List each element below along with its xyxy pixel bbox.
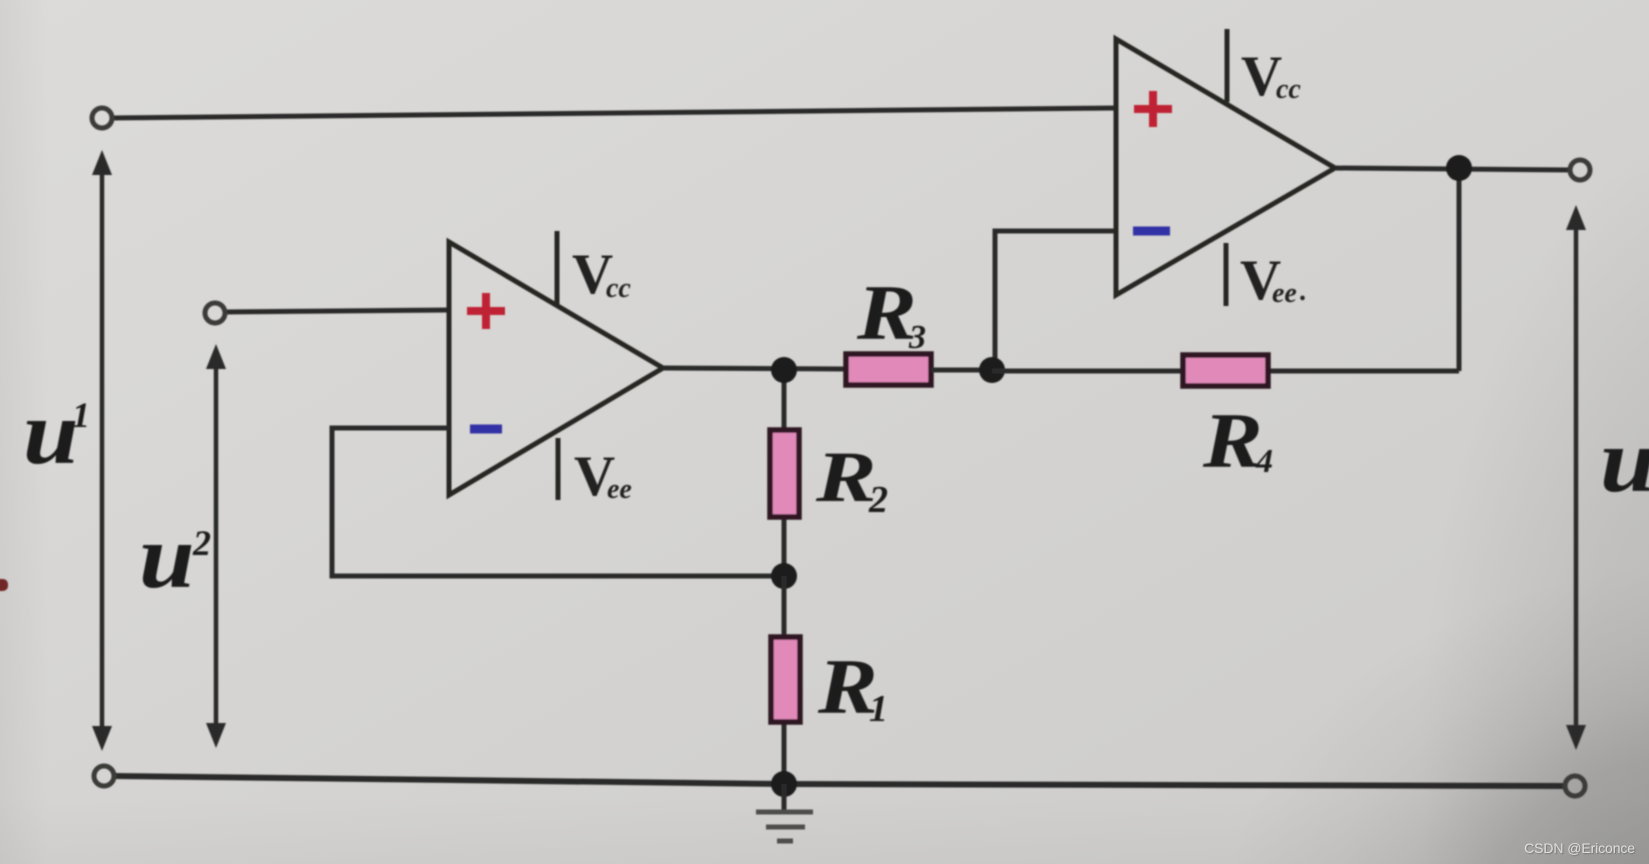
terminal bottom-left xyxy=(94,766,114,786)
watermark CSDN @Ericonce xyxy=(1524,840,1635,856)
svg-text:u: u xyxy=(1600,410,1649,511)
label u1 xyxy=(23,382,90,483)
wire R3 to node C xyxy=(931,368,994,373)
R4 label xyxy=(1202,398,1273,484)
node B junction dot xyxy=(771,563,797,589)
U2 Vcc pin line xyxy=(1225,29,1230,102)
wire feedback riser up to U2 output xyxy=(1457,166,1462,371)
label u (output voltage) xyxy=(1600,410,1649,511)
svg-text:ee: ee xyxy=(607,474,632,505)
R2 label xyxy=(815,437,888,521)
svg-text:u: u xyxy=(139,506,195,607)
terminal input 1 (top-left) xyxy=(92,108,112,128)
svg-text:R: R xyxy=(815,437,877,517)
U1 Vee pin line xyxy=(556,438,561,500)
wire top rail from input terminal 1 to U2 + input xyxy=(112,108,1116,118)
R3 label xyxy=(856,270,926,356)
label u2 xyxy=(139,506,211,607)
wire U1 output to node A and R3 xyxy=(663,368,846,369)
U1 Vcc label xyxy=(572,243,631,306)
red mark at left edge xyxy=(0,579,8,591)
svg-text:cc: cc xyxy=(606,273,631,304)
op-amp U2 triangle xyxy=(1116,39,1335,295)
U1 plus input symbol xyxy=(467,293,505,329)
resistor R4 xyxy=(1183,355,1268,386)
wire node C through R4 to feedback riser xyxy=(992,369,1459,374)
svg-text:2: 2 xyxy=(192,523,211,563)
wire node B down through R1 to bottom rail xyxy=(782,576,787,786)
wire node A down through R2 region xyxy=(782,369,787,578)
svg-text:cc: cc xyxy=(1276,74,1301,105)
resistor R1 xyxy=(771,637,800,722)
U2 minus input symbol xyxy=(1133,227,1170,236)
wire node C up and right to U2 minus input xyxy=(995,231,1117,372)
svg-text:3: 3 xyxy=(908,319,926,356)
node E junction dot on bottom rail xyxy=(771,771,797,797)
terminal bottom-right xyxy=(1565,776,1585,796)
node C junction dot xyxy=(979,357,1005,383)
wire U1 feedback: minus input left, down, right to node B xyxy=(332,428,786,576)
resistor R3 xyxy=(846,354,931,385)
svg-text:1: 1 xyxy=(869,688,888,730)
terminal input 2 xyxy=(205,303,225,323)
arrow u1 (left measurement arrow) xyxy=(92,150,112,751)
svg-text:4: 4 xyxy=(1255,443,1273,480)
svg-text:.: . xyxy=(1299,276,1306,307)
op-amp U1 triangle xyxy=(449,242,663,495)
U1 Vee label xyxy=(574,445,632,508)
wire U2 output to output terminal xyxy=(1335,168,1572,170)
arrow u (right measurement arrow) xyxy=(1566,205,1586,750)
node A junction dot xyxy=(771,357,797,383)
arrow u2 (second measurement arrow) xyxy=(206,344,226,748)
R1 label xyxy=(817,644,888,730)
U1 Vcc pin line xyxy=(555,231,560,304)
U1 minus input symbol xyxy=(470,425,502,434)
svg-text:R: R xyxy=(1202,398,1263,484)
U2 Vcc label xyxy=(1241,45,1301,108)
svg-text:u: u xyxy=(23,382,79,483)
U2 plus input symbol xyxy=(1134,91,1172,127)
wire input terminal 2 to U1 + input xyxy=(225,310,450,312)
node D junction dot on output xyxy=(1446,155,1472,181)
terminal output (top-right) xyxy=(1570,160,1590,180)
resistor R2 xyxy=(770,430,799,517)
U2 Vee pin line xyxy=(1224,243,1229,306)
wire bottom rail xyxy=(115,776,1565,786)
svg-text:2: 2 xyxy=(868,479,888,521)
svg-text:ee: ee xyxy=(1272,278,1297,309)
svg-text:1: 1 xyxy=(72,395,90,435)
svg-text:R: R xyxy=(856,270,917,356)
U2 Vee label xyxy=(1240,249,1306,312)
ground symbol xyxy=(756,784,813,841)
